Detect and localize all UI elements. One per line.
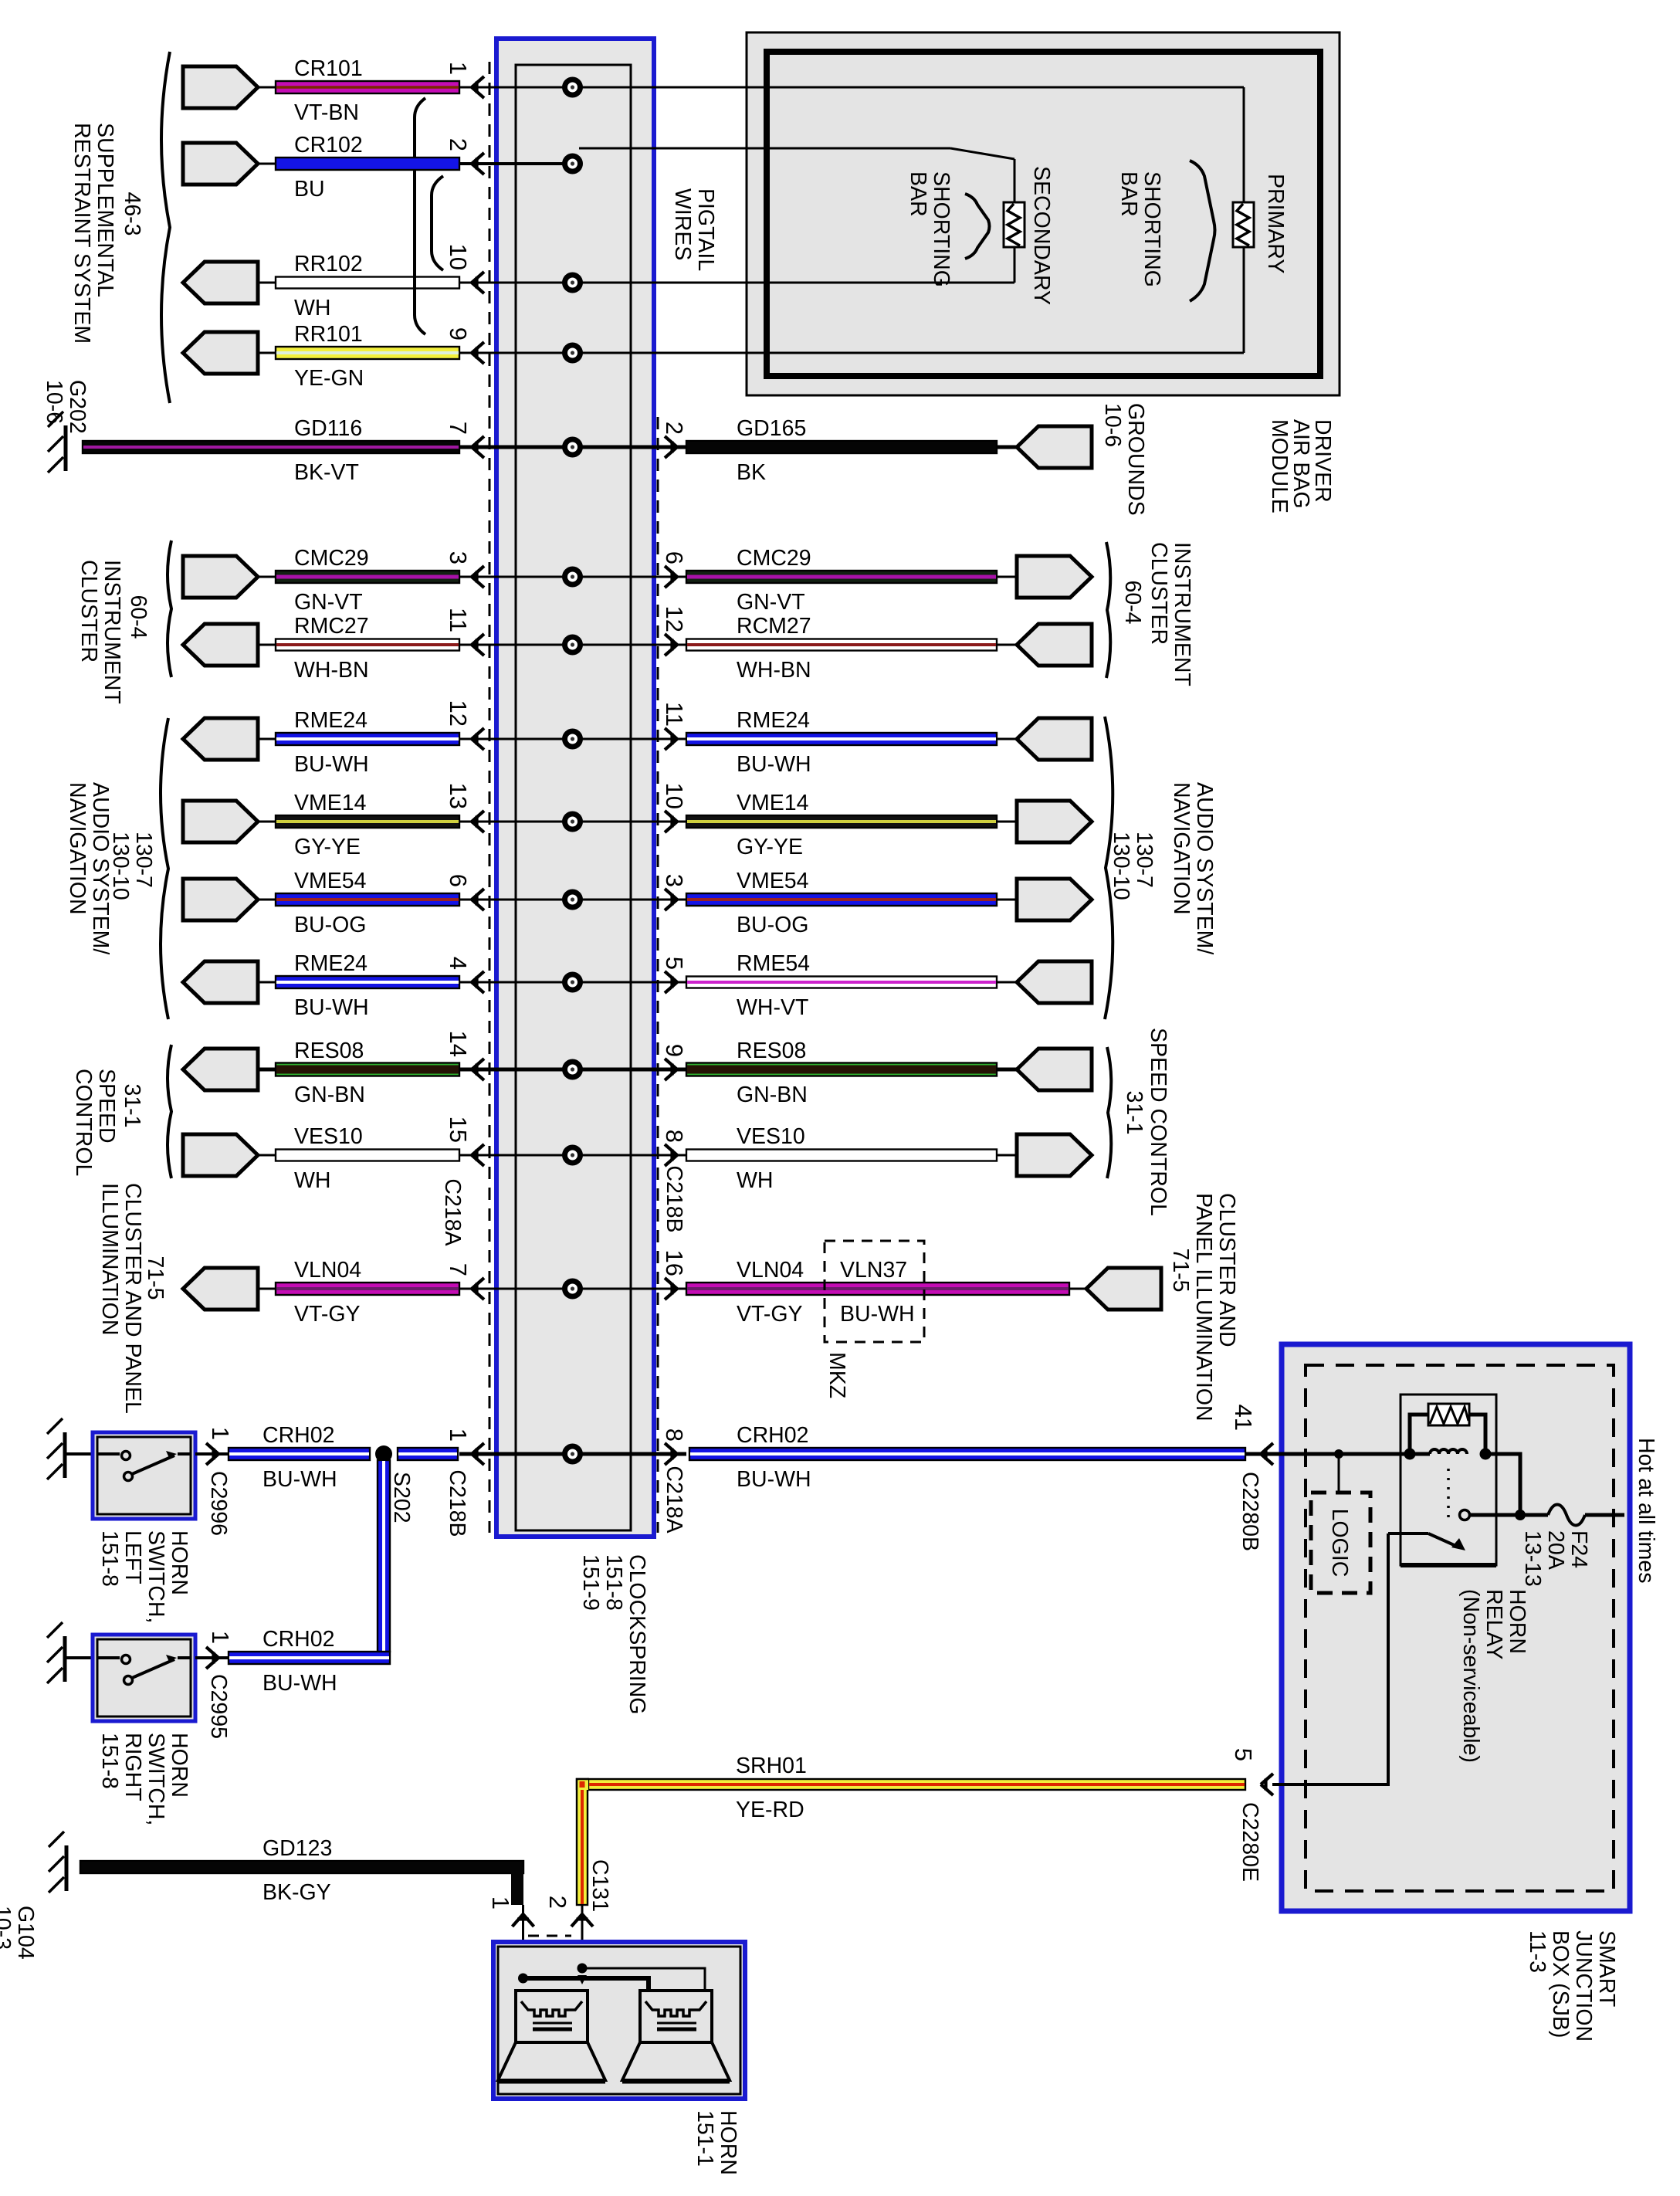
svg-text:BU: BU: [294, 177, 325, 202]
svg-text:VLN04: VLN04: [737, 1258, 804, 1283]
wire to logic module: [1338, 1454, 1340, 1493]
svg-text:BU-WH: BU-WH: [840, 1302, 915, 1327]
clockspring pin row r2: [562, 154, 583, 175]
wire CR101 VT-BN: [276, 81, 459, 93]
svg-text:BU-OG: BU-OG: [737, 913, 808, 937]
svg-text:GN-BN: GN-BN: [737, 1083, 808, 1107]
svg-text:HORN151-1: HORN151-1: [693, 2110, 740, 2175]
svg-text:9: 9: [445, 327, 472, 341]
svg-text:4: 4: [445, 957, 472, 970]
wire VME14 GY-YE: [276, 815, 459, 828]
wire row r10 through clockspring: [459, 899, 573, 901]
svg-text:MKZ: MKZ: [825, 1352, 849, 1398]
connector from instrument cluster right (RCM27): [1017, 624, 1092, 666]
svg-text:RME54: RME54: [737, 951, 810, 976]
wire GD165 link: [997, 446, 1017, 449]
brace speed control right: [1107, 1047, 1111, 1178]
svg-text:6: 6: [661, 551, 688, 564]
label VLN04 VT-GY right: [737, 1258, 804, 1327]
svg-text:16: 16: [661, 1250, 688, 1276]
connector from audio right (RME54): [1017, 961, 1092, 1003]
secondary shorting bar: [1004, 202, 1025, 247]
SJB inner dashed boundary: [1306, 1365, 1614, 1891]
label VLN37 BU-WH (MKZ): [840, 1258, 915, 1327]
wire CR102 BU: [276, 158, 459, 170]
connector arrow left row r4 pin 9: [472, 342, 484, 364]
svg-text:3: 3: [445, 551, 472, 564]
wire ground to horn switch right: [65, 1656, 93, 1659]
label VES10 WH: [294, 1124, 363, 1193]
horn internal wire pin2 to horn2: [582, 1968, 705, 1992]
connector arrow right row r7 pin 12: [665, 634, 677, 656]
connector arrow C131 pin 2: [571, 1914, 593, 1927]
connector arrow right row r13 pin 8: [665, 1144, 677, 1166]
svg-text:BU-WH: BU-WH: [294, 995, 369, 1020]
horn internal junction pin1: [518, 1974, 528, 1984]
horn internal wire pin1 to horn2: [523, 1978, 649, 1992]
connector arrow left row r15 pin 1: [472, 1443, 484, 1465]
relay resistor riser right: [1469, 1415, 1485, 1454]
svg-text:GN-VT: GN-VT: [294, 590, 363, 615]
secondary loop bottom / pigtail wire pin10: [573, 282, 1015, 284]
connector to speed control (VES10): [183, 1134, 258, 1176]
label CRH02 BU-WH right: [737, 1423, 811, 1492]
svg-text:GY-YE: GY-YE: [737, 835, 803, 859]
horn box: [493, 1942, 745, 2099]
relay armature dotted link: [1447, 1469, 1450, 1523]
svg-text:VT-GY: VT-GY: [294, 1302, 361, 1327]
svg-text:1: 1: [207, 1427, 234, 1440]
connector arrow left row r13 pin 15: [472, 1144, 484, 1166]
connector arrow left row r5 pin 7: [472, 436, 484, 458]
svg-text:RR102: RR102: [294, 252, 363, 276]
label SRH01 YE-RD: [736, 1754, 807, 1822]
wire RMC27 WH-BN: [276, 639, 459, 651]
connector arrow left row r9 pin 13: [472, 811, 484, 832]
wire row r5 right stub: [573, 446, 687, 449]
pigtail wire pin2: [579, 147, 950, 150]
svg-text:VME14: VME14: [294, 791, 367, 815]
wire RME54 right link: [997, 981, 1017, 984]
svg-text:10: 10: [661, 783, 688, 809]
wire RES08 GN-BN: [276, 1063, 459, 1076]
svg-text:BK-GY: BK-GY: [262, 1880, 331, 1905]
connector arrow right row r10 pin 3: [665, 889, 677, 910]
label RCM27 WH-BN right: [737, 614, 811, 683]
svg-text:WH-VT: WH-VT: [737, 995, 808, 1020]
pigtail wire pin1 to primary loop: [573, 86, 1245, 89]
wire row r12 right stub: [573, 1068, 687, 1072]
wire row r1 through clockspring: [459, 86, 573, 89]
svg-text:YE-GN: YE-GN: [294, 366, 364, 391]
clockspring pin row r1: [562, 77, 583, 98]
wire CRH02 vertical from S202: [378, 1460, 390, 1652]
wire GD123 vertical: [511, 1867, 523, 1905]
clockspring inner frame: [516, 65, 631, 1530]
connector arrow right row r8 pin 11: [665, 728, 677, 750]
svg-text:GN-BN: GN-BN: [294, 1083, 365, 1107]
svg-text:3: 3: [661, 874, 688, 887]
svg-text:VT-BN: VT-BN: [294, 100, 359, 125]
connector from speed control (RES08): [183, 1049, 258, 1090]
wire RME24 BU-WH pin4: [276, 976, 459, 988]
svg-text:BK: BK: [737, 460, 766, 485]
secondary shorting bar brace: [965, 194, 990, 259]
connector from SRS (RR102): [183, 262, 258, 303]
svg-text:C2996: C2996: [206, 1471, 231, 1536]
svg-text:C218B: C218B: [445, 1469, 469, 1537]
junction dot logic branch: [1334, 1449, 1343, 1459]
horn switch right contacts: [97, 1655, 191, 1685]
label CR101 VT-BN: [294, 56, 363, 125]
svg-text:6: 6: [445, 874, 472, 887]
ground at horn switch left: [47, 1418, 65, 1479]
svg-text:RME24: RME24: [294, 708, 367, 733]
wire CRH02 splice to C218B: [398, 1448, 458, 1460]
svg-text:BU-WH: BU-WH: [737, 752, 811, 777]
svg-text:71-5: 71-5: [1168, 1248, 1193, 1292]
wire CMC29 GN-VT: [276, 571, 459, 583]
wire ground to horn switch left: [65, 1452, 93, 1456]
clockspring pin row r11: [562, 972, 583, 993]
svg-text:C2995: C2995: [206, 1674, 231, 1739]
wire CRH02 from horn switch right: [229, 1652, 390, 1664]
wire VLN04/VLN37 VT-GY right: [686, 1283, 1069, 1295]
junction dot fuse node: [1515, 1510, 1526, 1520]
connector C218B dashed boundary (right): [657, 417, 659, 1533]
label VES10 WH right: [737, 1124, 805, 1193]
svg-text:BU-WH: BU-WH: [294, 752, 369, 777]
wire SRH01 YE-RD vertical: [577, 1779, 588, 1905]
wire row r8 through clockspring: [459, 738, 573, 740]
connector arrow C131 pin 1: [513, 1914, 534, 1927]
connector arrow C2995 pin 1: [206, 1647, 218, 1669]
connector arrow left row r2 pin 2: [472, 153, 484, 175]
wire row r3 through clockspring: [459, 282, 573, 284]
horn switch left box: [93, 1432, 195, 1519]
svg-text:CRH02: CRH02: [262, 1423, 334, 1448]
smart junction box SJB: [1282, 1344, 1630, 1911]
wire row r11 right stub: [573, 981, 687, 984]
wire VES10 WH right: [686, 1150, 997, 1161]
svg-text:BK-VT: BK-VT: [294, 460, 359, 485]
connector arrow right row r14 pin 16: [665, 1278, 677, 1300]
wire RCM27 WH-BN right: [686, 639, 997, 651]
label RME24 BU-WH right: [737, 708, 811, 777]
relay resistor box: [1428, 1404, 1469, 1425]
horn switch right box: [93, 1635, 195, 1721]
svg-text:SECONDARY: SECONDARY: [1029, 166, 1054, 305]
wire SRH01 YE-RD horizontal: [588, 1779, 1245, 1790]
svg-text:46-3: 46-3: [120, 191, 144, 236]
ground G104: [49, 1832, 66, 1893]
connector arrow left row r12 pin 14: [472, 1059, 484, 1080]
wire row r15 through clockspring: [459, 1452, 573, 1456]
connector to instrument cluster right (CMC29): [1017, 556, 1092, 598]
label VLN04 VT-GY: [294, 1258, 361, 1327]
svg-text:60-4: 60-4: [1120, 580, 1145, 624]
svg-text:C131: C131: [588, 1859, 612, 1912]
corner patch SRH01: [577, 1779, 589, 1790]
clockspring pin row r15: [562, 1444, 583, 1465]
svg-text:5: 5: [1230, 1748, 1257, 1761]
label RES08 GN-BN right: [737, 1039, 808, 1107]
horn internal pin2 arrow: [577, 1975, 587, 1984]
label CMC29 GN-VT right: [737, 546, 811, 615]
connector arrow left row r7 pin 11: [472, 634, 484, 656]
connector from speed control right (RES08): [1017, 1049, 1092, 1090]
wire row r9 right stub: [573, 821, 687, 823]
svg-text:12: 12: [445, 700, 472, 727]
connector from panel illumination right (VLN04): [1086, 1268, 1161, 1310]
svg-text:1: 1: [487, 1896, 514, 1910]
svg-text:7: 7: [445, 422, 472, 435]
connector arrow left row r11 pin 4: [472, 971, 484, 993]
svg-text:RCM27: RCM27: [737, 614, 811, 639]
wire RCM27 right link: [997, 644, 1017, 646]
wire CRH02 BU-WH from horn switch left: [229, 1448, 370, 1460]
connector arrow left row r3 pin 10: [472, 272, 484, 293]
svg-text:RR101: RR101: [294, 322, 363, 347]
wire row r6 through clockspring: [459, 576, 573, 578]
label CMC29 GN-VT: [294, 546, 369, 615]
connector from audio right (RME24): [1017, 718, 1092, 760]
svg-text:GD116: GD116: [294, 416, 362, 441]
wire pin41 to horn relay: [1272, 1452, 1430, 1456]
wire row r11 through clockspring: [459, 981, 573, 984]
svg-text:C2280E: C2280E: [1238, 1802, 1262, 1882]
ground at horn switch right: [47, 1622, 65, 1683]
wire VME54 BU-OG: [276, 893, 459, 906]
svg-text:31-1: 31-1: [120, 1083, 144, 1127]
horn relay box: [1401, 1395, 1496, 1565]
wire row r15 right stub: [573, 1452, 687, 1456]
wire VME54 BU-OG right: [686, 893, 997, 906]
wire RME24 link: [258, 738, 276, 740]
wire row r14 right stub: [573, 1288, 687, 1290]
wire row r9 through clockspring: [459, 821, 573, 823]
wire RES08 right link: [997, 1068, 1017, 1072]
wire row r5 through clockspring: [459, 446, 573, 449]
twisted pair curve rows 1-4: [415, 98, 425, 334]
svg-text:WH-BN: WH-BN: [294, 658, 369, 683]
wire horn pin1: [522, 1905, 524, 1991]
svg-text:15: 15: [445, 1117, 472, 1143]
connector C218A dashed boundary (left): [489, 62, 491, 1533]
svg-text:RME24: RME24: [294, 951, 367, 976]
connector arrow left row r14 pin 7: [472, 1278, 484, 1300]
clockspring pin row r9: [562, 812, 583, 832]
svg-text:11: 11: [661, 702, 688, 727]
label RME24 BU-WH: [294, 708, 369, 777]
wire CRH02 into SJB: [1245, 1452, 1284, 1456]
brace audio system left: [161, 718, 168, 1019]
connector arrow left row r6 pin 3: [472, 566, 484, 588]
relay resistor riser left: [1410, 1415, 1428, 1454]
wire row r12 through clockspring: [459, 1068, 573, 1072]
clockspring pin row r7: [562, 635, 583, 656]
svg-text:13: 13: [445, 783, 472, 809]
svg-text:7: 7: [445, 1263, 472, 1276]
wire VES10 right link: [997, 1154, 1017, 1157]
wire CMC29 GN-VT right: [686, 571, 997, 583]
wire VES10 link: [258, 1154, 276, 1157]
svg-text:71-5: 71-5: [143, 1256, 168, 1300]
wire CMC29 link: [258, 576, 276, 578]
svg-text:YE-RD: YE-RD: [736, 1798, 804, 1822]
connector arrow right row r11 pin 5: [665, 971, 677, 993]
svg-text:VES10: VES10: [737, 1124, 805, 1149]
wire VLN04 link: [258, 1288, 276, 1290]
label VME14 GY-YE: [294, 791, 367, 859]
connector arrow left row r10 pin 6: [472, 889, 484, 910]
wire VLN04 VT-GY: [276, 1283, 459, 1295]
svg-text:SRH01: SRH01: [736, 1754, 807, 1778]
logic module dashed box: [1311, 1493, 1370, 1593]
wire RR102 link: [258, 282, 276, 284]
svg-text:WH: WH: [294, 296, 330, 320]
wire RME24 BU-WH: [276, 733, 459, 745]
svg-text:Hot at all times: Hot at all times: [1634, 1438, 1658, 1583]
label RR101 YE-GN: [294, 322, 364, 391]
svg-text:VLN37: VLN37: [840, 1258, 907, 1283]
clockspring pin row r10: [562, 890, 583, 910]
svg-text:CRH02: CRH02: [262, 1627, 334, 1652]
label RR102 WH: [294, 252, 363, 320]
svg-text:41: 41: [1230, 1405, 1257, 1431]
svg-text:VME54: VME54: [294, 869, 367, 893]
connector arrow C2280B pin 41: [1261, 1443, 1273, 1465]
svg-text:GD165: GD165: [737, 416, 806, 441]
label GD116 BK-VT: [294, 416, 362, 485]
clockspring pin row r8: [562, 729, 583, 750]
svg-text:5: 5: [661, 957, 688, 970]
wire RR102 WH: [276, 277, 459, 289]
svg-text:8: 8: [661, 1428, 688, 1442]
horn 2 symbol: [622, 1991, 730, 2082]
wire row r14 through clockspring: [459, 1288, 573, 1290]
wire row r6 right stub: [573, 576, 687, 578]
wire RMC27 link: [258, 644, 276, 646]
svg-text:1: 1: [207, 1631, 234, 1644]
clockspring pin row r5: [562, 437, 583, 458]
wire GD165 BK: [686, 441, 997, 453]
svg-text:SPEED CONTROL: SPEED CONTROL: [1146, 1028, 1170, 1216]
svg-text:PIGTAILWIRES: PIGTAILWIRES: [670, 188, 718, 271]
svg-text:GN-VT: GN-VT: [737, 590, 805, 615]
svg-text:CRH02: CRH02: [737, 1423, 808, 1448]
svg-text:VLN04: VLN04: [294, 1258, 361, 1283]
wire contact to fuse node: [1470, 1513, 1548, 1517]
wire VME14 GY-YE right: [686, 815, 997, 828]
svg-text:VES10: VES10: [294, 1124, 363, 1149]
wire VME14 link: [258, 821, 276, 823]
horn 1 symbol: [498, 1991, 605, 2082]
primary loop right wire: [1243, 87, 1245, 353]
label VME14 GY-YE right: [737, 791, 809, 859]
wire VLN04 right link: [1069, 1288, 1086, 1290]
brace supplemental restraint system: [161, 52, 170, 403]
connector arrow left row r1 pin 1: [472, 76, 484, 98]
label VME54 BU-OG right: [737, 869, 809, 937]
svg-text:WH-BN: WH-BN: [737, 658, 811, 683]
svg-text:8: 8: [661, 1130, 688, 1143]
connector to SRS (CR101): [183, 66, 258, 108]
label RMC27 WH-BN: [294, 614, 369, 683]
connector arrow C2996 pin 1: [206, 1443, 218, 1465]
wire fuse to hot at all times: [1585, 1513, 1624, 1517]
connector to audio right (VME54): [1017, 879, 1092, 920]
connector to audio (VME54): [183, 879, 258, 920]
svg-text:CR102: CR102: [294, 133, 363, 158]
primary shorting bar: [1233, 202, 1254, 247]
svg-text:LOGIC: LOGIC: [1327, 1509, 1352, 1578]
wire row r7 right stub: [573, 644, 687, 646]
svg-text:RME24: RME24: [737, 708, 810, 733]
svg-text:BU-WH: BU-WH: [262, 1671, 337, 1696]
connector to speed control right (VES10): [1017, 1134, 1092, 1176]
relay coil junction left: [1404, 1449, 1416, 1460]
wire horn pin2: [581, 1905, 584, 1978]
wire VME14 right link: [997, 821, 1017, 823]
svg-text:9: 9: [661, 1044, 688, 1057]
label GD165 BK: [737, 416, 806, 485]
label RME54 WH-VT right: [737, 951, 810, 1020]
horn relay bottom edge: [1401, 1563, 1496, 1567]
wire CRH02 BU-WH to SJB: [689, 1448, 1245, 1460]
brace instrument cluster left: [168, 541, 171, 677]
clockspring pin row r12: [562, 1059, 583, 1080]
clockspring pin row r14: [562, 1279, 583, 1300]
wire RR101 link: [258, 352, 276, 354]
svg-text:BU-WH: BU-WH: [737, 1467, 811, 1492]
label RME24 BU-WH pin4: [294, 951, 369, 1020]
label CRH02 BU-WH left: [262, 1423, 337, 1492]
air bag module inner frame: [767, 52, 1320, 376]
brace audio system right: [1105, 717, 1113, 1019]
C131 dashed connector line: [528, 1935, 571, 1937]
svg-text:GY-YE: GY-YE: [294, 835, 361, 859]
svg-text:11: 11: [445, 608, 472, 632]
connector arrow right row r9 pin 10: [665, 811, 677, 832]
primary loop bottom / pigtail wire pin9: [573, 352, 1245, 354]
wire RME24 pin4 link: [258, 981, 276, 984]
fuse F24 symbol: [1548, 1505, 1585, 1526]
connector from panel illumination (VLN04): [183, 1268, 258, 1310]
connector to audio (VME14): [183, 801, 258, 842]
svg-text:DRIVERAIR BAGMODULE: DRIVERAIR BAGMODULE: [1267, 419, 1335, 513]
svg-text:2: 2: [544, 1896, 571, 1909]
connector arrow left row r8 pin 12: [472, 728, 484, 750]
svg-text:VME14: VME14: [737, 791, 809, 815]
svg-text:2: 2: [445, 138, 472, 151]
svg-text:BU-OG: BU-OG: [294, 913, 366, 937]
relay switch fixed contact: [1460, 1510, 1470, 1520]
svg-text:C218A: C218A: [440, 1178, 465, 1245]
driver air bag module box: [747, 32, 1340, 395]
svg-text:VME54: VME54: [737, 869, 809, 893]
connector arrow right row r5 pin 2: [665, 436, 677, 458]
wire CMC29 right link: [997, 576, 1017, 578]
wire CR101 link: [258, 86, 276, 89]
svg-text:WH: WH: [294, 1168, 330, 1193]
svg-text:14: 14: [445, 1031, 472, 1057]
clockspring pin row r4: [562, 343, 583, 364]
label RES08 GN-BN: [294, 1039, 365, 1107]
brace speed control left: [168, 1045, 171, 1178]
wire GD123 BK-GY horizontal: [80, 1861, 523, 1873]
connector to instrument cluster (CMC29): [183, 556, 258, 598]
